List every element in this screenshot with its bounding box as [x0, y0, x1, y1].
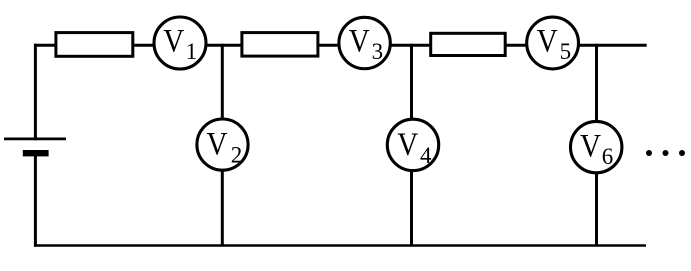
wire V5 to right end (through node)	[579, 44, 647, 47]
svg-text:V: V	[207, 126, 228, 162]
voltmeter V1	[154, 17, 206, 69]
battery	[4, 139, 66, 157]
svg-text:V: V	[163, 24, 184, 60]
wire V2 to bottom rail	[221, 171, 224, 247]
svg-text:3: 3	[372, 39, 384, 64]
resistor R1	[56, 33, 133, 57]
wire left vertical: top rail to battery	[34, 44, 37, 140]
wire V4 to bottom rail	[410, 171, 413, 247]
wire top rail: left corner to R1	[34, 44, 57, 47]
voltmeter V6	[571, 121, 622, 172]
wire bottom rail	[34, 244, 646, 247]
voltmeter V5	[527, 17, 579, 69]
wire R1 to V1	[133, 44, 153, 47]
voltmeter V2	[197, 119, 248, 170]
resistor R3	[431, 33, 506, 55]
wire V6 to bottom rail	[595, 173, 598, 247]
wire node to V2	[221, 44, 224, 119]
wire R2 to V3	[318, 44, 339, 47]
wire battery to bottom rail	[34, 156, 37, 247]
ellipsis dots (circuit continues)	[646, 150, 685, 156]
svg-text:V: V	[537, 24, 558, 60]
svg-text:1: 1	[186, 39, 198, 64]
svg-text:6: 6	[602, 144, 614, 169]
svg-text:V: V	[397, 127, 418, 163]
svg-text:V: V	[580, 129, 601, 165]
voltmeter V4	[387, 119, 438, 170]
voltmeter V3	[339, 17, 390, 68]
wire V1 to R2 (through node)	[205, 44, 242, 47]
wire R3 to V5	[505, 44, 527, 47]
svg-text:V: V	[349, 24, 370, 60]
svg-text:4: 4	[420, 143, 432, 168]
wire node to V4	[410, 44, 413, 119]
resistor R2	[242, 33, 318, 57]
svg-text:2: 2	[231, 143, 243, 168]
wire V3 to R3 (through node)	[391, 44, 432, 47]
svg-text:5: 5	[560, 39, 572, 64]
wire node to V6	[595, 44, 598, 122]
